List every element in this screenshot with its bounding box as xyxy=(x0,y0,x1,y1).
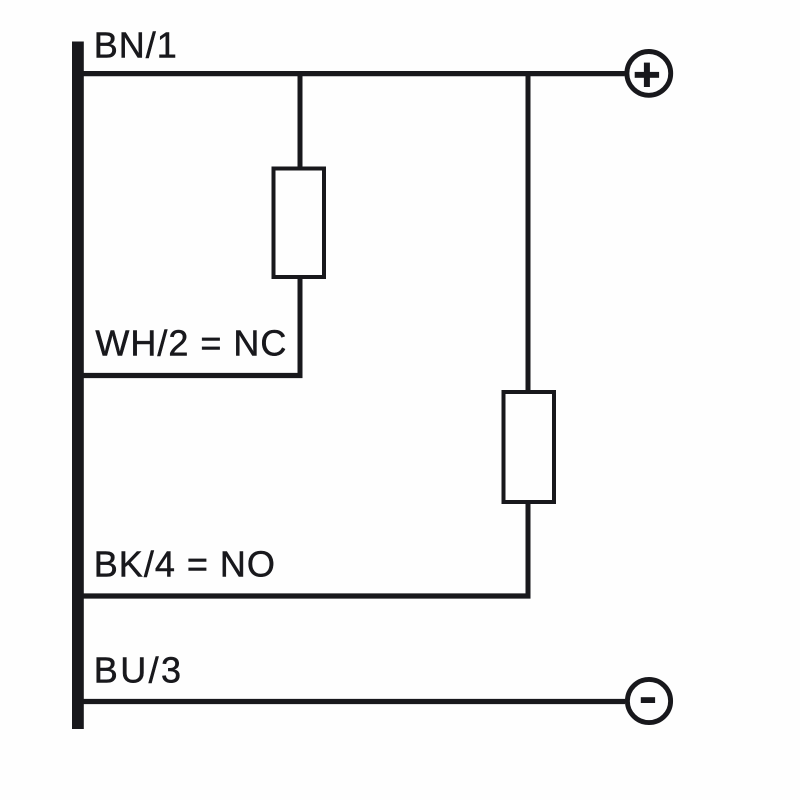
load resistor R1 (NC output load) xyxy=(274,169,325,278)
svg-text:BU/3: BU/3 xyxy=(94,650,184,691)
wire from R1 down to WH/2 xyxy=(298,277,303,376)
terminal - (minus, circle) xyxy=(627,679,670,722)
terminal + (plus, circle) xyxy=(627,52,671,96)
wire from BN/1 down to load R2 xyxy=(526,71,531,392)
wire WH/2 (horizontal) xyxy=(84,373,303,378)
supply rail (thick vertical bar, left) xyxy=(72,42,84,730)
load resistor R2 (NO output load) xyxy=(504,392,555,502)
svg-text:WH/2 = NC: WH/2 = NC xyxy=(95,323,287,364)
wire BK/4 (horizontal) xyxy=(84,593,531,598)
wire BN/1 (top horizontal) xyxy=(84,71,625,76)
wire from R2 down to BK/4 xyxy=(526,502,531,596)
svg-text:BK/4 = NO: BK/4 = NO xyxy=(94,544,276,585)
wire from BN/1 down to load R1 xyxy=(298,71,303,169)
svg-text:BN/1: BN/1 xyxy=(94,25,178,66)
wire BU/3 (bottom horizontal) xyxy=(84,699,626,704)
